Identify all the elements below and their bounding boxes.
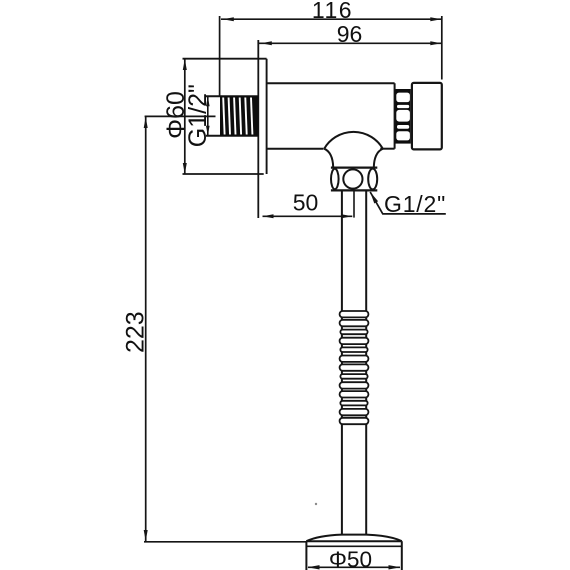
dome over body xyxy=(324,132,383,149)
dim line 223 (vertical) xyxy=(145,116,147,541)
svg-text:G1/2": G1/2" xyxy=(384,191,446,217)
extension bottom (flange bottom edge extended, y=174) xyxy=(183,173,264,175)
extension / flange left edge line (x=258.3) xyxy=(257,40,259,218)
wall flange right edge xyxy=(266,59,268,174)
dimension line 96 xyxy=(259,42,442,44)
push button cap xyxy=(412,83,442,149)
bell neck right (concave fillet) xyxy=(374,149,383,168)
dimension line PHI50 xyxy=(308,566,400,568)
pipe centerline tick xyxy=(353,191,355,218)
extension bottom floor line xyxy=(144,541,306,543)
outlet pipe upper xyxy=(341,191,343,311)
valve body tube xyxy=(267,82,395,84)
speck artifact xyxy=(315,503,317,505)
base flare xyxy=(306,535,401,542)
dimension line 116 xyxy=(221,18,441,20)
extension line right (cap end, x=441.8) xyxy=(441,16,443,80)
dimension line PHI60 xyxy=(184,59,186,174)
push button ribs xyxy=(395,89,410,144)
leader G1/2 right xyxy=(370,192,446,214)
thread top edge extended xyxy=(206,95,258,97)
inlet thread G1/2 xyxy=(220,96,258,136)
bell neck left (concave fillet) xyxy=(324,149,333,168)
dimension line 50 xyxy=(263,215,353,217)
svg-text:50: 50 xyxy=(293,190,319,216)
base cylinder xyxy=(305,541,307,570)
svg-text:223: 223 xyxy=(121,311,149,353)
bellows section xyxy=(341,311,343,425)
outlet nut xyxy=(331,166,377,168)
outlet pipe lower xyxy=(341,424,343,534)
thread dimension line (x=207.8) xyxy=(207,96,209,135)
inlet centerline xyxy=(145,115,216,117)
extension top (flange top edge extended, y=58.7) xyxy=(183,58,267,60)
thread bottom edge extended xyxy=(206,135,258,137)
extension line left (thread end, x=219.6) xyxy=(219,16,221,96)
